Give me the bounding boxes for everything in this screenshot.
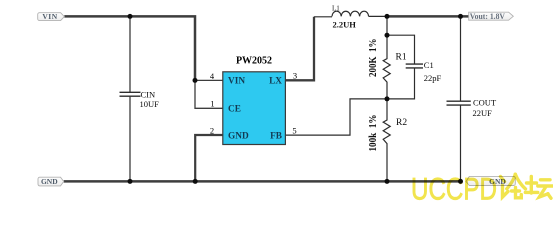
svg-text:22UF: 22UF (473, 108, 493, 118)
svg-text:GND: GND (41, 177, 58, 186)
resistor R1 (383, 35, 390, 99)
capacitor COUT (447, 101, 471, 105)
svg-text:PW2052: PW2052 (236, 56, 272, 67)
wire GND bottom rail (64, 180, 462, 183)
wire CIN branch (129, 16, 131, 181)
node GND right port flag (466, 176, 515, 185)
wire pin4 stub and CE branch (195, 80, 223, 108)
watermark UCCPD论坛 (411, 171, 553, 207)
wire LX stub to inductor vertical (285, 17, 314, 81)
svg-text:UCCPD: UCCPD (411, 171, 497, 203)
svg-text:1: 1 (210, 98, 214, 108)
wire pin2 GND to rail (195, 135, 223, 181)
wire COUT branch (460, 16, 462, 181)
capacitor C1 (406, 64, 423, 68)
wire FB feedback (285, 99, 387, 135)
svg-text:C1: C1 (424, 60, 434, 70)
op-amp U1 PW2052 IC body (223, 72, 286, 145)
svg-text:VIN: VIN (42, 12, 57, 21)
svg-text:100k 1%: 100k 1% (368, 115, 379, 152)
inductor L1 (332, 11, 369, 16)
svg-text:Vout: 1.8V: Vout: 1.8V (470, 12, 505, 21)
svg-text:5: 5 (292, 126, 296, 136)
wire output top rail (387, 15, 469, 18)
node junction dots (128, 14, 464, 184)
svg-text:CE: CE (228, 104, 241, 114)
svg-text:COUT: COUT (473, 98, 497, 108)
svg-text:FB: FB (270, 132, 282, 142)
svg-text:2.2UH: 2.2UH (333, 20, 357, 30)
wire inductor leads (314, 15, 387, 17)
svg-text:R2: R2 (396, 118, 407, 128)
node VIN port flag (38, 13, 65, 21)
wire R1 top branch and C1 loop (387, 16, 415, 99)
svg-text:VIN: VIN (228, 76, 245, 86)
svg-text:22pF: 22pF (424, 73, 442, 83)
svg-text:LX: LX (269, 76, 282, 86)
wire VIN top rail (64, 16, 195, 80)
node GND left port flag (38, 177, 64, 186)
svg-text:R1: R1 (396, 52, 407, 62)
svg-text:CIN: CIN (141, 90, 156, 100)
capacitor CIN (120, 92, 141, 96)
svg-text:200K 1%: 200K 1% (368, 39, 379, 78)
svg-text:L1: L1 (332, 4, 340, 12)
svg-text:3: 3 (293, 70, 297, 80)
node Vout port flag (469, 12, 514, 20)
svg-text:10UF: 10UF (140, 99, 160, 109)
svg-text:GND: GND (228, 132, 249, 142)
resistor R2 (383, 99, 390, 181)
svg-text:2: 2 (210, 126, 214, 136)
